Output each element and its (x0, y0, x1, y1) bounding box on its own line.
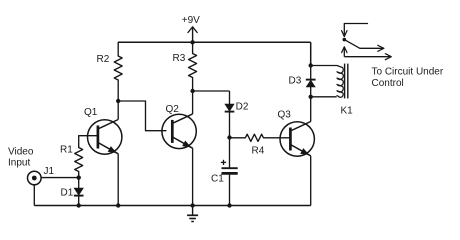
wire J1 to ground bus (33, 185, 35, 206)
relay K1 NO contact (342, 47, 392, 60)
svg-text:D3: D3 (289, 75, 302, 86)
wire Q1 collector node to Q2 base (118, 101, 166, 131)
wire R1 to Q1 base (79, 135, 98, 137)
transistor Q2 (162, 104, 196, 149)
svg-text:To Circuit Under: To Circuit Under (372, 66, 444, 77)
svg-text:Q1: Q1 (84, 107, 98, 118)
svg-text:Video: Video (8, 147, 34, 158)
svg-text:R3: R3 (173, 53, 186, 64)
svg-text:R1: R1 (60, 144, 73, 155)
svg-text:Q2: Q2 (166, 104, 180, 115)
node Q1 emitter / ground bus junction (116, 203, 120, 207)
label Video Input (8, 147, 34, 169)
relay K1 switch pivot (343, 38, 347, 42)
svg-text:R4: R4 (252, 146, 265, 157)
label To Circuit Under Control (372, 66, 444, 89)
svg-text:Q3: Q3 (278, 110, 292, 121)
wire Q1 collector (117, 101, 119, 120)
node R2 / Q1 collector junction (116, 99, 120, 103)
svg-text:J1: J1 (44, 166, 55, 177)
resistor R4 (230, 134, 291, 156)
wire Q2 collector (192, 91, 194, 114)
node C1 / ground bus junction (227, 203, 231, 207)
node bus / R3 junction (190, 40, 194, 44)
wire Q1 emitter to ground bus (117, 154, 119, 206)
node Q2 emitter / ground junction (190, 203, 194, 207)
svg-text:C1: C1 (211, 174, 224, 185)
wire +9V top bus (118, 41, 311, 43)
wire D3 node to coil (top) (311, 65, 337, 67)
diode D3 (289, 66, 316, 97)
wire J1 to R1/D1 junction (41, 177, 78, 179)
node D3 bottom / coil junction (309, 95, 313, 99)
diode D1 (61, 178, 84, 206)
relay K1 switch common lead (342, 24, 368, 37)
ground symbol (187, 206, 198, 222)
node J1 / R1 / D1 junction (77, 175, 81, 179)
transistor Q3 (278, 110, 315, 157)
wire Q2 emitter to ground bus (192, 148, 194, 205)
svg-text:R2: R2 (97, 54, 110, 65)
wire bus to D3 node (310, 42, 312, 65)
node D1 / ground bus junction (77, 203, 81, 207)
svg-text:K1: K1 (341, 106, 354, 117)
svg-text:+9V: +9V (182, 15, 200, 26)
wire Q3 collector (310, 97, 312, 122)
wire Q3 emitter to ground bus (310, 156, 312, 206)
node D3 top / coil junction (309, 63, 313, 67)
wire ground bus (bottom rail) (34, 205, 310, 207)
relay K1 coil (337, 64, 353, 117)
connector J1 (28, 166, 55, 185)
+9V power symbol (182, 15, 200, 42)
resistor R3 (173, 42, 197, 91)
resistor R2 (97, 42, 123, 101)
svg-text:Input: Input (8, 158, 30, 169)
diode D2 (225, 91, 249, 138)
node D2 / R4 / C1 junction (227, 135, 231, 139)
svg-text:D1: D1 (61, 188, 74, 199)
capacitor C1 (211, 138, 238, 206)
transistor Q1 (84, 107, 122, 154)
svg-text:Control: Control (372, 78, 404, 89)
relay K1 switch blade / NC throw (344, 40, 384, 52)
node R3 / Q2 collector / D2 junction (190, 89, 194, 93)
wire R3 node to D2 (193, 90, 230, 92)
resistor R1 (60, 136, 83, 178)
svg-text:D2: D2 (236, 102, 249, 113)
wire D3 node to coil (bottom) (311, 96, 337, 98)
